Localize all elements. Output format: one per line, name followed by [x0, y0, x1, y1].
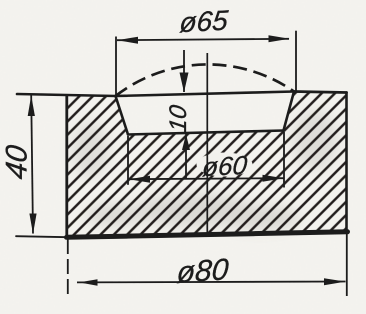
- svg-text:ø60: ø60: [201, 150, 249, 182]
- svg-text:ø80: ø80: [176, 253, 230, 290]
- svg-text:ø65: ø65: [178, 5, 229, 39]
- svg-text:10: 10: [165, 103, 192, 134]
- svg-text:40: 40: [1, 143, 34, 181]
